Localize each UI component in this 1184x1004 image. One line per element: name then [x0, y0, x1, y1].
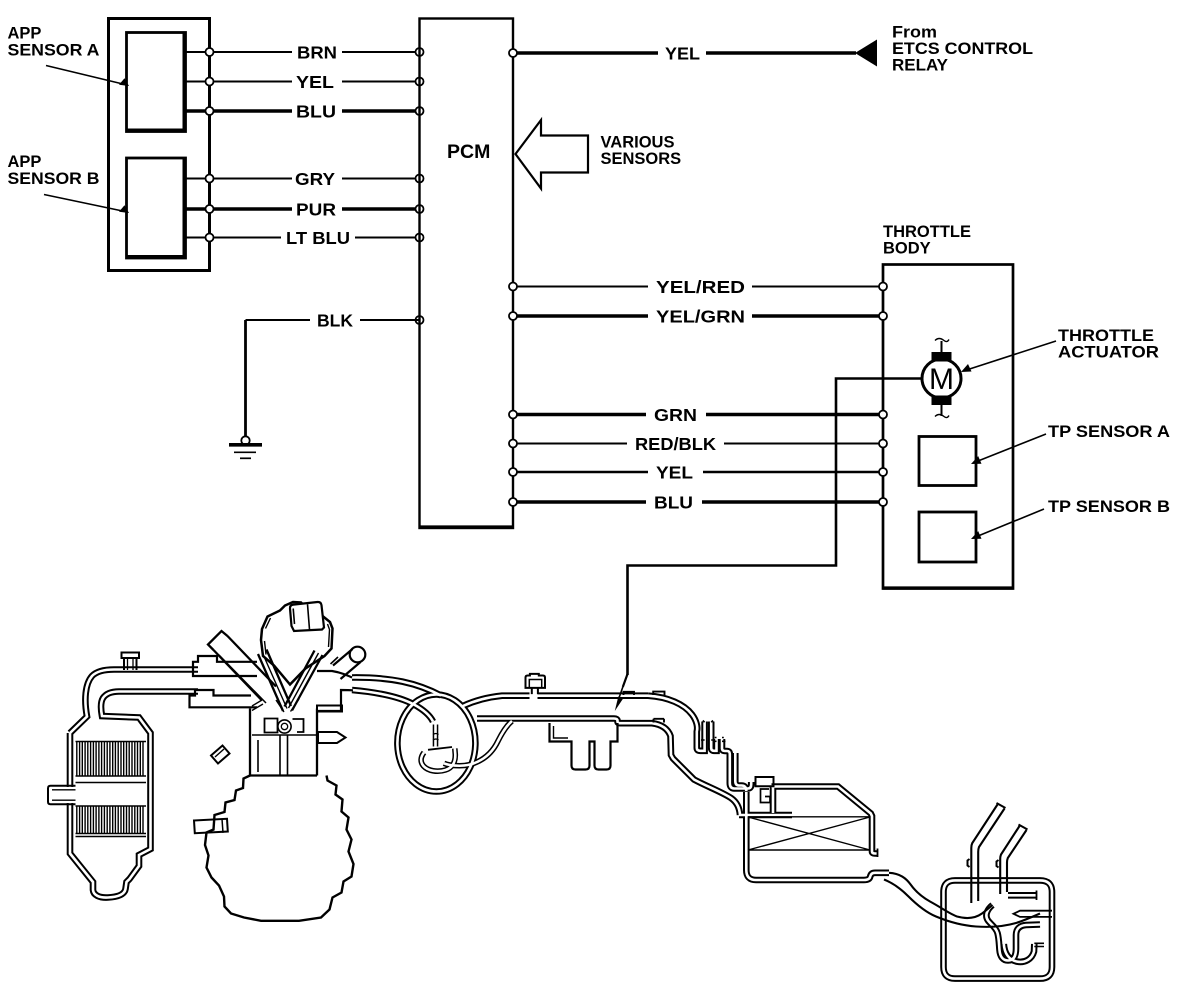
TP sensor B box — [919, 512, 976, 562]
duct top clips — [624, 692, 665, 723]
wire BLK to ground — [246, 320, 420, 436]
terminal circles throttle body left edge — [879, 283, 887, 507]
intake manifold upper arm (left) — [193, 656, 257, 676]
lid end tick — [877, 849, 879, 858]
APP sensor assembly outer box — [109, 19, 210, 271]
resonator top stub tick — [1036, 891, 1038, 901]
wire PUR — [186, 207, 419, 210]
svg-text:ACTUATOR: ACTUATOR — [1058, 344, 1159, 362]
svg-text:APP: APP — [8, 25, 42, 43]
svg-text:SENSOR B: SENSOR B — [8, 170, 100, 188]
engine lower block outline — [205, 776, 354, 921]
svg-text:SENSORS: SENSORS — [601, 150, 682, 168]
leader arrow to sensor B — [44, 195, 129, 214]
svg-text:From: From — [892, 24, 937, 42]
terminal circle PCM right top — [509, 49, 517, 57]
curl hook lip and break marks — [428, 747, 452, 750]
canister hatch band lower — [77, 806, 143, 834]
canister hatch band upper — [77, 742, 143, 777]
pipe1 tip and nub — [968, 803, 1006, 867]
svg-text:BRN: BRN — [297, 42, 337, 62]
svg-text:YEL/GRN: YEL/GRN — [656, 306, 745, 326]
air inlet box on cover — [290, 602, 324, 631]
svg-text:APP: APP — [8, 153, 42, 171]
resonator pipes single-line walls — [884, 805, 1040, 927]
svg-text:THROTTLE: THROTTLE — [883, 223, 971, 241]
leader arrow to motor — [961, 341, 1056, 372]
svg-text:YEL/RED: YEL/RED — [656, 277, 745, 297]
duct T-cap stub — [526, 674, 546, 694]
curl hook and thin vacuum hose (double wall) — [421, 721, 512, 771]
svg-text:ETCS CONTROL: ETCS CONTROL — [892, 40, 1033, 58]
terminal circles PCM right edge — [509, 283, 517, 507]
resonator mid stub with point — [1014, 911, 1053, 917]
svg-text:RED/BLK: RED/BLK — [635, 434, 716, 454]
APP sensor B inner box — [127, 158, 186, 258]
svg-text:GRN: GRN — [654, 405, 697, 425]
TP sensor A box — [919, 437, 976, 486]
svg-text:YEL: YEL — [296, 72, 334, 92]
intake manifold lower arm (left) — [190, 690, 258, 707]
intake runner V lines — [258, 650, 323, 712]
intake duct and curl hose walls (double wall) — [352, 677, 751, 815]
svg-text:RELAY: RELAY — [892, 57, 948, 75]
ground symbol — [229, 436, 262, 458]
wire RED/BLK — [513, 443, 883, 445]
white cores of double walls — [70, 670, 1052, 979]
terminal circles PCM left edge — [416, 48, 424, 324]
svg-text:BLK: BLK — [317, 310, 353, 330]
filter box G clip — [756, 777, 774, 786]
wire BLU — [186, 109, 419, 112]
terminal circles APP box right edge — [206, 48, 214, 242]
svg-text:SENSOR A: SENSOR A — [8, 42, 100, 60]
valve cover — [261, 602, 333, 685]
svg-text:LT BLU: LT BLU — [286, 228, 350, 248]
svg-text:TP SENSOR B: TP SENSOR B — [1048, 498, 1170, 516]
air filter box walls (double wall) — [739, 787, 889, 881]
lower left stub — [194, 819, 228, 833]
wire YEL (lower) — [513, 471, 883, 473]
wire YEL to ETCS relay — [513, 51, 856, 54]
wire LT BLU — [186, 237, 419, 239]
canister inlet port — [48, 786, 76, 804]
svg-text:BLU: BLU — [296, 101, 336, 121]
resonator box and pipes (double wall) — [944, 880, 1053, 978]
PCM box — [420, 19, 514, 529]
wire from throttle actuator motor to intake (down to engine) — [628, 379, 923, 676]
mounting bracket comb under duct — [550, 723, 618, 770]
wire BRN — [186, 51, 419, 53]
leader arrow to TP sensor A — [971, 434, 1046, 464]
leader arrow to TP sensor B — [971, 509, 1044, 539]
throttle body box — [883, 265, 1013, 589]
left diagonal stub — [211, 746, 230, 764]
wire YEL/GRN — [513, 314, 883, 317]
svg-text:GRY: GRY — [295, 169, 335, 189]
wire YEL/RED — [513, 286, 883, 288]
arrowhead at intake duct — [615, 697, 624, 712]
resonator lower stub — [1034, 943, 1044, 946]
svg-text:BODY: BODY — [883, 240, 931, 258]
arrowhead to ETCS relay — [855, 40, 877, 67]
filter X pattern — [748, 817, 870, 850]
svg-text:M: M — [929, 363, 954, 396]
stub collars near elbow — [701, 721, 726, 742]
svg-text:PUR: PUR — [296, 199, 336, 219]
svg-text:YEL: YEL — [656, 462, 693, 482]
left intake tube — [208, 631, 276, 701]
svg-text:TP SENSOR A: TP SENSOR A — [1048, 423, 1170, 441]
VARIOUS SENSORS block arrow — [516, 120, 589, 189]
wire BLU (lower) — [513, 500, 883, 503]
throttle actuator motor M — [922, 339, 961, 418]
wire YEL — [186, 81, 419, 83]
leader arrow to sensor A — [46, 66, 129, 87]
svg-text:THROTTLE: THROTTLE — [1058, 327, 1154, 345]
canister top stub — [122, 653, 140, 671]
pipe2 tip and nub — [997, 825, 1028, 868]
svg-text:YEL: YEL — [665, 43, 700, 63]
right side stubs of head — [317, 706, 346, 744]
canister band boundary lines — [76, 742, 147, 837]
air cleaner canister outline (double wall) — [70, 670, 198, 898]
cylinder head block — [250, 709, 317, 776]
svg-text:BLU: BLU — [654, 492, 693, 512]
svg-text:PCM: PCM — [447, 141, 490, 163]
APP sensor A inner box — [127, 33, 186, 132]
wire GRY — [186, 178, 419, 180]
svg-text:VARIOUS: VARIOUS — [601, 134, 675, 152]
wire GRN — [513, 413, 883, 416]
right breather tube — [333, 649, 361, 679]
right manifold arm joining duct — [317, 671, 353, 711]
